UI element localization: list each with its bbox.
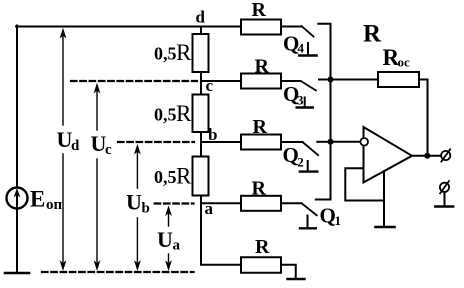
label 0,5R upper — [154, 40, 192, 65]
svg-text:4: 4 — [298, 41, 305, 56]
svg-text:U: U — [157, 227, 173, 252]
label R terminator — [255, 236, 270, 258]
svg-text:R: R — [176, 40, 192, 65]
label 0,5R middle — [154, 101, 192, 126]
svg-text:0,5: 0,5 — [154, 44, 177, 64]
ground bar terminator — [288, 278, 305, 280]
svg-text:0,5: 0,5 — [154, 167, 177, 187]
node a label — [205, 199, 214, 218]
label R row Q3 — [255, 56, 270, 78]
output terminal O1 — [441, 151, 450, 160]
wire terminator R to ground — [281, 265, 296, 279]
svg-text:ос: ос — [398, 55, 411, 70]
bus contact stub Q2 — [317, 141, 330, 143]
resistor 0,5R lower (b-a) — [193, 157, 209, 196]
svg-text:3: 3 — [297, 93, 304, 108]
label R row Q2 — [253, 116, 268, 138]
wire R2 to switch — [281, 141, 303, 143]
wire node b row — [201, 141, 241, 143]
svg-text:b: b — [142, 201, 150, 217]
wire node a row — [201, 202, 241, 204]
wire top rail from source to R4 resistor — [16, 26, 241, 28]
label Q3 — [283, 82, 304, 108]
arrow Ua — [165, 205, 172, 271]
node d stub — [200, 27, 202, 35]
svg-text:Q: Q — [320, 204, 336, 228]
wire left rail — [16, 26, 18, 274]
wire op-amp ground leg — [383, 171, 385, 227]
wire ladder bottom + corner to terminator R — [201, 196, 241, 265]
source arrow — [16, 193, 18, 208]
switch Q4 blade — [302, 26, 314, 37]
svg-text:R: R — [255, 56, 270, 78]
junction dot bus/op-amp — [328, 139, 334, 145]
svg-text:R: R — [252, 178, 267, 200]
dashed line node c level — [71, 80, 197, 82]
svg-text:d: d — [71, 138, 80, 154]
arrow Ub — [134, 144, 141, 271]
wire non-inverting input to ground loop — [345, 168, 384, 200]
label Q2 — [283, 143, 304, 170]
svg-text:c: c — [206, 76, 214, 95]
switch Q1 blade — [302, 203, 317, 215]
label Roc — [383, 45, 411, 70]
label Ua — [157, 227, 181, 254]
wire O2 to ground — [444, 192, 446, 207]
resistor 0,5R middle (c-b) — [193, 95, 209, 133]
switch Q2 blade — [303, 142, 319, 155]
label Ub — [126, 190, 150, 217]
wire b segment — [200, 132, 202, 157]
ground bar O2 — [435, 205, 453, 207]
svg-text:R: R — [363, 21, 382, 48]
label 0,5R lower — [154, 164, 192, 189]
switch Q1 ground — [307, 216, 309, 229]
svg-text:оп: оп — [46, 197, 63, 213]
svg-text:c: c — [105, 142, 112, 158]
svg-text:2: 2 — [297, 155, 304, 170]
node c label — [206, 76, 214, 95]
output terminal O2 — [440, 183, 449, 192]
resistor 0,5R upper (d-c) — [193, 34, 209, 72]
wire Roc right, down to output — [419, 80, 428, 156]
arrow Uc — [94, 83, 101, 271]
svg-text:R: R — [255, 236, 270, 258]
resistor R row Q2 — [241, 135, 281, 150]
svg-text:U: U — [126, 190, 142, 215]
wire bus to Roc (summing) — [331, 79, 379, 81]
svg-text:a: a — [173, 238, 181, 254]
label Eop — [30, 187, 63, 214]
svg-text:R: R — [253, 116, 268, 138]
resistor Roc — [378, 72, 419, 87]
label R (bus) — [363, 21, 382, 48]
ground bar op-amp — [375, 226, 394, 228]
source E_op circle — [7, 188, 28, 209]
junction dot bus/Roc — [328, 77, 334, 83]
dashed line node b level — [118, 141, 194, 143]
wire node c row — [201, 80, 241, 82]
label R row Q4 — [252, 0, 267, 21]
svg-text:a: a — [205, 199, 214, 218]
label Q1 — [320, 204, 342, 229]
wire R1 to switch — [281, 202, 302, 204]
label R row Q1 — [252, 178, 267, 200]
resistor R row Q4 — [241, 20, 281, 35]
switch Q3 blade — [301, 81, 316, 90]
node d label — [196, 8, 206, 27]
op-amp inverting input bubble — [360, 138, 368, 146]
label Ud — [57, 127, 81, 154]
dashed line node a level — [155, 202, 194, 204]
svg-text:R: R — [176, 101, 192, 126]
label Uc — [91, 131, 113, 158]
dashed line zero level — [42, 271, 194, 273]
wire R4 to switch — [281, 26, 302, 28]
arrow Ud — [60, 28, 67, 271]
wire bus to op-amp input — [331, 141, 361, 143]
bus contact stub Q3 — [319, 79, 331, 81]
switch Q2 ground — [307, 161, 309, 172]
bus vertical with top and bottom contact stubs — [316, 24, 331, 200]
wire op-amp output — [412, 155, 441, 157]
ground bar bottom-left under source — [5, 272, 29, 275]
wire c segment — [200, 72, 202, 95]
svg-text:d: d — [196, 8, 206, 27]
resistor R terminator bottom — [241, 257, 281, 273]
switch Q4 ground — [307, 43, 309, 56]
svg-text:E: E — [30, 187, 45, 212]
switch Q3 ground — [304, 98, 306, 108]
resistor R row Q3 — [241, 74, 281, 89]
node b label — [208, 125, 217, 144]
resistor R row Q1 — [241, 196, 281, 211]
svg-text:1: 1 — [335, 213, 342, 228]
svg-text:R: R — [252, 0, 267, 21]
wire R3 to switch — [281, 80, 301, 82]
op-amp U1 triangle — [364, 127, 413, 182]
junction dot output — [424, 153, 430, 159]
label Q4 — [283, 32, 305, 56]
svg-text:0,5: 0,5 — [154, 105, 177, 125]
svg-text:R: R — [176, 164, 192, 189]
